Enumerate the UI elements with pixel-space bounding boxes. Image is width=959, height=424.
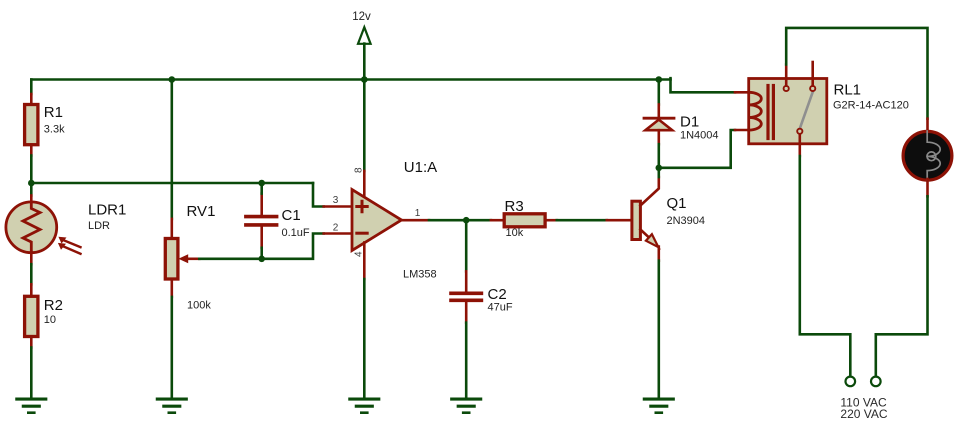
svg-text:C2: C2 <box>488 286 507 303</box>
svg-text:2N3904: 2N3904 <box>667 215 706 227</box>
op-amp U1:A triangle <box>352 190 402 251</box>
op-amp plus sign <box>357 201 367 211</box>
resistor R1 <box>25 105 38 145</box>
pin R1 top <box>30 94 33 105</box>
wire wiper rail to - input jog <box>199 234 323 259</box>
pin R2 bottom <box>30 337 33 348</box>
LDR1 zigzag element <box>23 203 40 252</box>
potentiometer RV1 body <box>165 239 178 280</box>
svg-text:R1: R1 <box>44 104 63 121</box>
ground symbol 4 <box>452 399 481 413</box>
svg-text:3.3k: 3.3k <box>44 124 65 136</box>
svg-text:C1: C1 <box>282 207 301 224</box>
wire 12v arrow down to rail <box>363 44 366 80</box>
wire LDR to R2 <box>30 264 33 284</box>
pin relay coil top <box>735 91 749 94</box>
junction node at R1/LDR and + rail <box>28 180 35 187</box>
capacitor C2 plate 2 <box>451 298 481 302</box>
power 12v arrow symbol <box>358 27 371 44</box>
svg-text:1: 1 <box>415 208 421 219</box>
svg-text:U1:A: U1:A <box>404 159 437 176</box>
op-amp pin 8 stub <box>363 171 366 199</box>
pin lamp top <box>926 119 929 133</box>
pin relay pole down stub <box>798 134 801 156</box>
wire pin 4 to ground <box>363 279 366 399</box>
op-amp pin 4 stub <box>363 243 366 280</box>
wire top +12V rail <box>31 78 670 81</box>
RV1 wiper pin line <box>188 257 200 260</box>
wire D1 node to relay coil bottom <box>659 130 735 168</box>
op-amp pin 1 output stub <box>402 219 430 222</box>
wire R3 to Q1 base <box>557 219 607 222</box>
svg-text:8: 8 <box>354 167 365 173</box>
wire C1 top to rail <box>260 183 263 194</box>
relay RL1 body box <box>749 79 827 144</box>
wire lamp down to terminal 2 <box>876 196 928 376</box>
capacitor C2 plate 1 <box>451 291 481 295</box>
svg-text:LDR1: LDR1 <box>88 201 126 218</box>
pin relay coil bottom <box>735 129 749 132</box>
pin relay common up stub <box>785 65 788 86</box>
relay RL1 switch lever (gray) <box>800 92 813 129</box>
wire pin 8 from rail <box>363 80 366 172</box>
svg-text:10: 10 <box>44 314 56 326</box>
ground symbol 2 <box>157 399 186 413</box>
svg-text:G2R-14-AC120: G2R-14-AC120 <box>833 100 909 112</box>
wire relay common to top corner and lamp <box>786 28 927 119</box>
RV1 wiper arrowhead <box>178 254 188 263</box>
svg-text:LDR: LDR <box>88 220 110 232</box>
wire RV1 to ground <box>171 297 174 399</box>
op-amp U1:A pin 2 stub <box>324 232 352 235</box>
wire C1 bottom to rail <box>260 248 263 259</box>
svg-text:47uF: 47uF <box>488 302 513 314</box>
pin C2 bottom <box>465 302 468 323</box>
transistor Q1 emitter line <box>640 230 658 261</box>
svg-text:0.1uF: 0.1uF <box>282 227 310 239</box>
ground symbol 5 <box>644 399 673 413</box>
transistor Q1 collector line <box>640 177 658 206</box>
svg-text:R3: R3 <box>505 198 524 215</box>
transistor Q1 emitter arrowhead <box>646 234 659 247</box>
LDR1 light arrow 2 <box>61 245 81 253</box>
pin LDR1 top <box>30 196 33 204</box>
terminal circle 1 <box>846 377 856 387</box>
svg-text:D1: D1 <box>680 113 699 130</box>
op-amp minus sign <box>357 232 367 235</box>
svg-text:RL1: RL1 <box>834 82 862 99</box>
pin RV1 top <box>171 219 174 239</box>
resistor R2 <box>25 296 38 336</box>
svg-text:10k: 10k <box>506 227 524 239</box>
svg-text:1N4004: 1N4004 <box>680 130 719 142</box>
wire rail down to D1 <box>657 80 660 105</box>
pin lamp bottom <box>926 179 929 196</box>
svg-text:R2: R2 <box>44 297 63 314</box>
wire emitter to ground <box>657 261 660 399</box>
svg-text:3: 3 <box>333 195 339 206</box>
wire R1 to LDR <box>30 156 33 196</box>
svg-text:4: 4 <box>354 251 365 257</box>
pin C1 bottom <box>260 227 263 248</box>
lamp body <box>903 131 952 180</box>
pin D1 anode <box>657 130 660 144</box>
pin RV1 bottom <box>171 279 174 297</box>
junction node D1 bottom / collector / relay coil <box>656 165 663 172</box>
junction node rail/12v <box>361 76 368 83</box>
diode D1 triangle <box>645 120 672 131</box>
junction node top rail / D1 <box>656 76 663 83</box>
junction node rail/RV1 <box>169 76 176 83</box>
svg-text:Q1: Q1 <box>667 195 687 212</box>
wire output to R3 <box>429 219 491 222</box>
relay NO contact circle <box>810 86 815 91</box>
pin LDR1 bottom <box>30 252 33 265</box>
pin C2 top <box>465 271 468 291</box>
wire RV1 top: rail down <box>171 80 174 219</box>
wire collector up to D1 node <box>657 168 660 177</box>
transistor Q1 base pin <box>607 219 632 222</box>
pin relay NO stub (unconnected) <box>811 62 814 86</box>
svg-text:2: 2 <box>333 222 339 233</box>
pin R3 right <box>545 219 557 222</box>
pin R3 left <box>491 219 504 222</box>
LDR1 light arrow 1 <box>62 239 81 247</box>
ground symbol 3 <box>350 399 379 413</box>
terminal circle 2 <box>871 377 881 387</box>
wire top rail corner to relay coil top pin <box>671 78 736 92</box>
wire left branch: rail down to R1 <box>30 80 33 95</box>
relay RL1 core bar 2 <box>772 86 775 139</box>
relay pole contact circle <box>797 129 802 134</box>
svg-text:220 VAC: 220 VAC <box>840 407 887 421</box>
wire + input rail from LDR node <box>31 182 313 185</box>
junction node C1 top <box>258 180 265 187</box>
LDR1 body circle <box>6 202 57 253</box>
pin D1 cathode <box>657 105 660 118</box>
wire D1 anode to node <box>657 144 660 168</box>
wire C2 to ground <box>465 323 468 399</box>
relay RL1 coil arcs <box>749 92 762 130</box>
relay RL1 core bar 1 <box>766 86 769 139</box>
pin R1 bottom <box>30 145 33 156</box>
lamp filament (gray) <box>927 131 940 181</box>
junction node output/C2 <box>463 217 470 224</box>
svg-text:100k: 100k <box>187 299 211 311</box>
ground symbol 1 <box>17 399 46 413</box>
pin R2 top <box>30 284 33 296</box>
op-amp U1:A pin 3 stub <box>324 205 352 208</box>
svg-text:RV1: RV1 <box>187 203 216 220</box>
relay common contact circle <box>784 86 789 91</box>
transistor Q1 base bar <box>632 201 641 239</box>
wire relay pole down to terminal 1 <box>800 156 851 376</box>
capacitor C1 plate 2 <box>246 223 277 227</box>
wire C2 from output node <box>465 220 468 271</box>
wire jog down to op-amp pin 3 <box>313 183 324 207</box>
svg-text:12v: 12v <box>352 11 371 23</box>
pin C1 top <box>260 194 263 215</box>
wire R2 to ground <box>30 348 33 399</box>
diode D1 cathode bar <box>644 117 674 120</box>
svg-text:LM358: LM358 <box>403 269 437 281</box>
capacitor C1 plate 1 <box>246 215 277 219</box>
resistor R3 <box>504 214 545 227</box>
junction node C1 bottom <box>258 255 265 262</box>
